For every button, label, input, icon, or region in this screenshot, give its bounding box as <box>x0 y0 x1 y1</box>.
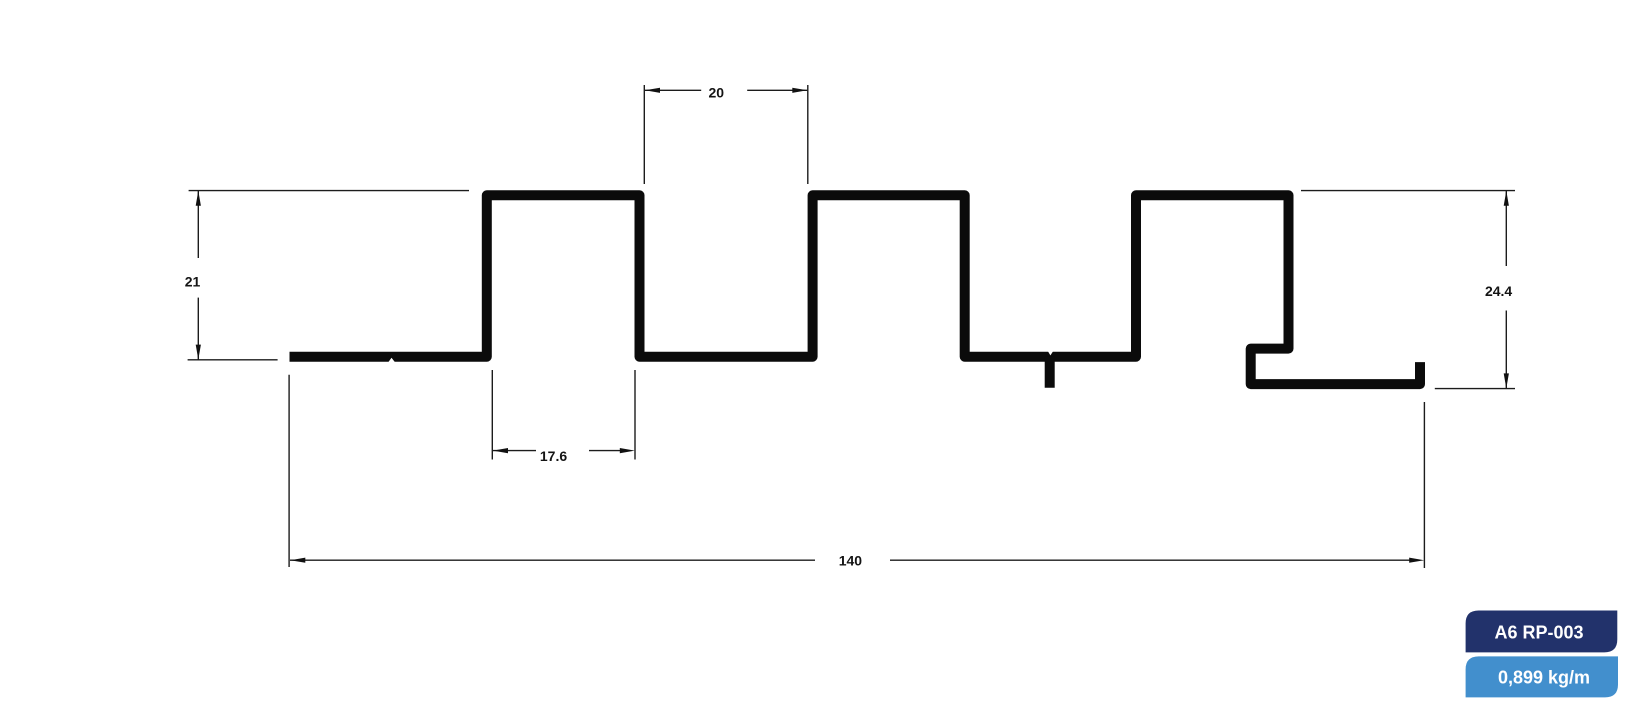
svg-text:20: 20 <box>709 85 725 101</box>
svg-text:140: 140 <box>839 553 863 569</box>
svg-text:17.6: 17.6 <box>540 448 567 464</box>
svg-text:24.4: 24.4 <box>1485 283 1512 299</box>
svg-text:A6 RP-003: A6 RP-003 <box>1494 623 1583 643</box>
svg-text:21: 21 <box>185 274 201 290</box>
svg-text:0,899 kg/m: 0,899 kg/m <box>1498 667 1590 687</box>
